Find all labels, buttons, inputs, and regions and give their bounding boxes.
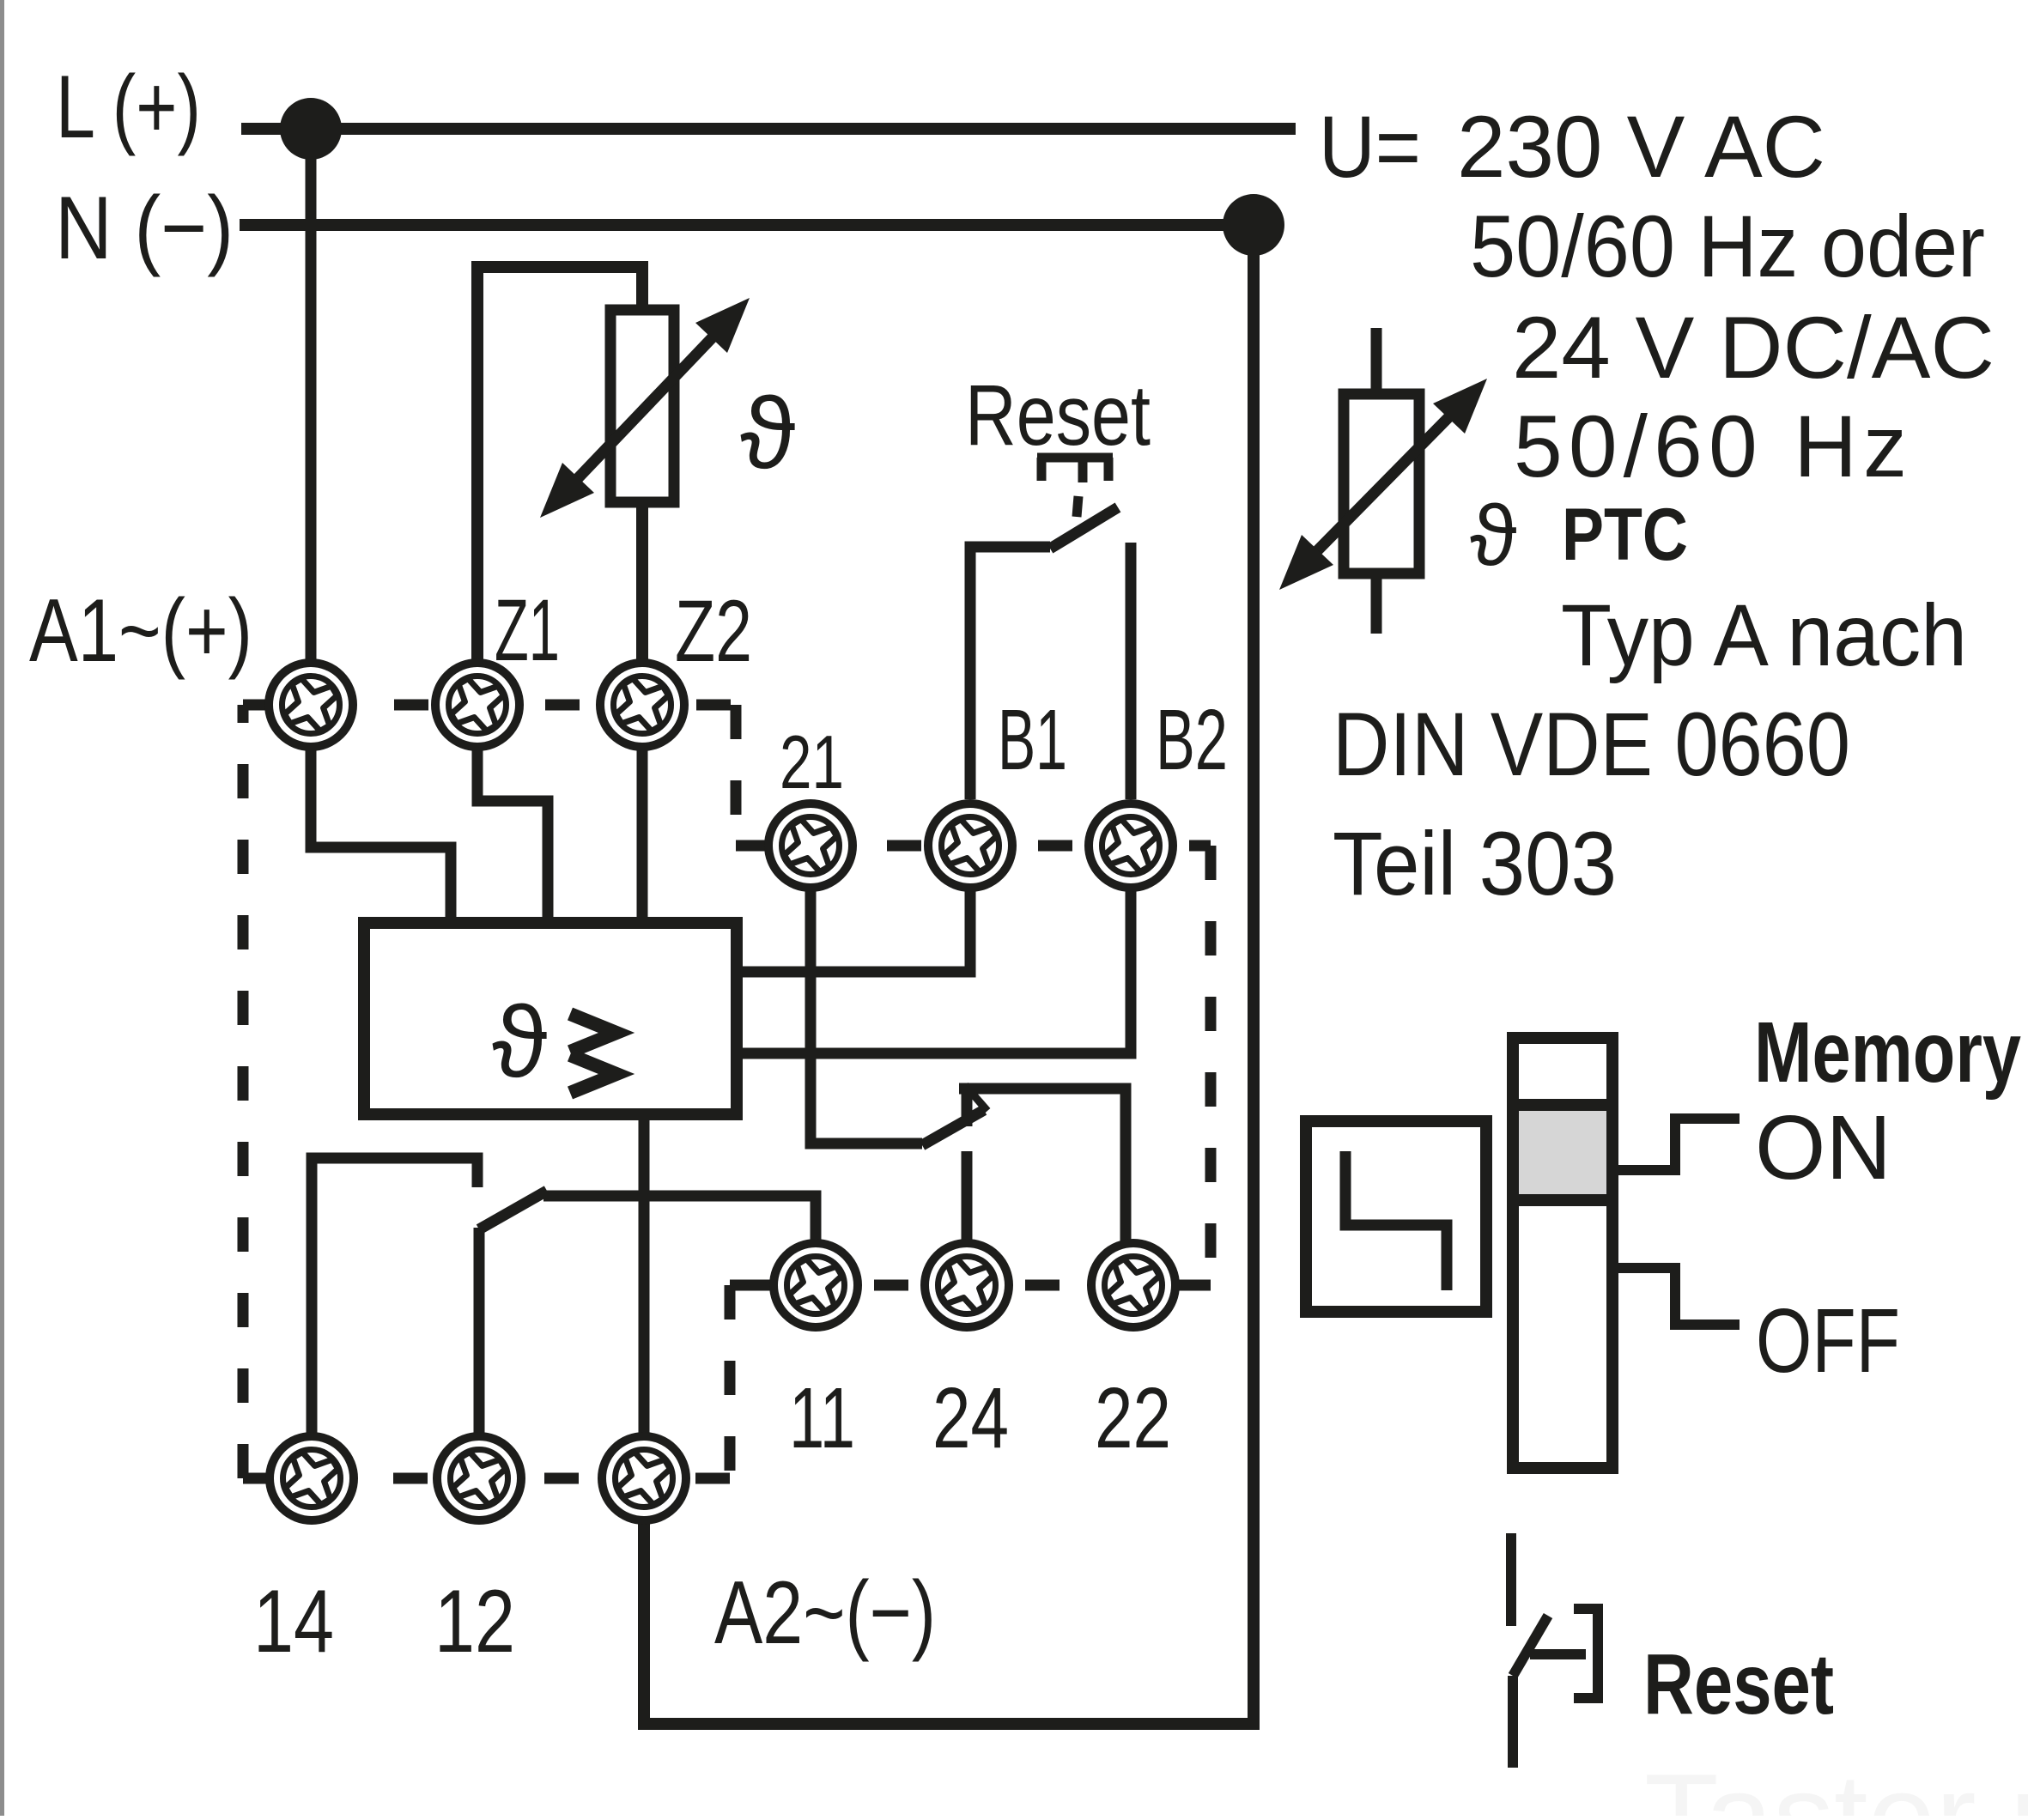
svg-text:21: 21 <box>780 719 844 804</box>
terminal A2 <box>602 1436 686 1520</box>
svg-text:Teil 303: Teil 303 <box>1333 814 1617 914</box>
svg-text:Reset: Reset <box>1643 1636 1834 1732</box>
svg-text:24 V DC/AC: 24 V DC/AC <box>1512 299 1995 397</box>
memory switch divider top <box>1513 1099 1612 1111</box>
terminal B1 <box>928 804 1012 888</box>
wire box output to B2 <box>737 846 1131 1053</box>
wire from rheostat down to Z2 <box>636 496 648 705</box>
svg-text:12: 12 <box>434 1572 515 1671</box>
svg-text:ON: ON <box>1755 1097 1891 1198</box>
reset pushbutton actuator bracket <box>1530 1604 1603 1703</box>
rheostat (set-point adjuster) body <box>610 310 674 502</box>
terminal B2 <box>1089 804 1173 888</box>
reset contact blade <box>1050 507 1118 549</box>
trip device box <box>364 923 737 1114</box>
wire to ON <box>1612 1119 1740 1170</box>
wire box output to B1 <box>737 846 970 972</box>
svg-text:50/60 Hz: 50/60 Hz <box>1514 397 1907 495</box>
wire fixed contact to terminal 22 <box>959 1089 1126 1285</box>
svg-text:ϑ: ϑ <box>1470 488 1517 584</box>
rheostat arrow <box>540 298 750 518</box>
wire bottom from A2 to right bus <box>644 1478 1260 1724</box>
terminal 21 <box>768 804 853 888</box>
page left border <box>0 0 4 1816</box>
PTC thermistor body <box>1344 394 1419 573</box>
latching function icon <box>1306 1121 1486 1312</box>
wire 14 fixed contact <box>312 1158 477 1478</box>
svg-text:230 V AC: 230 V AC <box>1457 98 1825 196</box>
svg-text:50/60 Hz oder: 50/60 Hz oder <box>1470 197 1985 295</box>
contact blade 21-24 <box>922 1110 984 1145</box>
contact tick at blade tip <box>965 1085 987 1111</box>
memory switch knob (grey) <box>1519 1110 1606 1195</box>
svg-text:24: 24 <box>932 1370 1009 1466</box>
svg-text:22: 22 <box>1095 1370 1171 1466</box>
terminal 11 <box>774 1243 858 1327</box>
terminal 12 <box>437 1436 521 1520</box>
reset pushbutton actuator <box>1037 458 1113 517</box>
wire N supply line <box>240 219 1254 231</box>
wire B2 stub up to reset contact <box>1126 543 1137 799</box>
svg-text:B1: B1 <box>998 692 1067 788</box>
reset pushbutton lead bottom <box>1508 1676 1518 1768</box>
wire from Z1 into trip box <box>477 705 548 931</box>
wire from L dot down to terminal A1 <box>306 129 317 705</box>
svg-text:L (+): L (+) <box>56 58 201 157</box>
contact blade 12-11 <box>479 1191 547 1229</box>
dashed device outline through terminal rows <box>243 705 1211 1478</box>
wire L supply line <box>241 123 1296 135</box>
wire B1 up to reset contact <box>970 547 1050 799</box>
svg-text:Z1: Z1 <box>495 581 560 679</box>
PTC thermistor lead bottom <box>1371 573 1382 634</box>
wire stub left of terminal 11 <box>742 1280 816 1291</box>
wire to OFF <box>1612 1268 1740 1325</box>
svg-text:A2~(−): A2~(−) <box>714 1563 936 1663</box>
reset pushbutton (bottom right) lead top <box>1506 1533 1516 1626</box>
svg-text:11: 11 <box>789 1370 855 1466</box>
svg-text:Typ A nach: Typ A nach <box>1561 586 1967 684</box>
junction dot on N <box>1223 194 1284 256</box>
wire from Z2 into trip box <box>637 705 648 931</box>
svg-text:PTC: PTC <box>1562 494 1688 576</box>
wire blade to terminal 11 <box>543 1196 816 1285</box>
svg-text:ϑ: ϑ <box>492 986 548 1099</box>
terminal Z2 <box>600 663 684 747</box>
terminal 22 <box>1091 1243 1175 1327</box>
svg-text:B2: B2 <box>1156 692 1228 788</box>
greater-equal chevrons in box <box>570 1014 616 1093</box>
svg-text:N (−): N (−) <box>55 179 234 278</box>
wire 21 down to contact <box>811 846 922 1144</box>
memory switch divider bottom <box>1513 1194 1612 1206</box>
PTC thermistor arrow <box>1279 379 1487 590</box>
svg-text:DIN VDE 0660: DIN VDE 0660 <box>1333 695 1850 795</box>
svg-text:Memory: Memory <box>1754 1004 2021 1101</box>
memory slide switch body <box>1513 1038 1612 1468</box>
wire loop from Z1 up over to rheostat <box>477 267 642 705</box>
svg-text:U=: U= <box>1319 98 1421 196</box>
svg-text:ϑ: ϑ <box>740 377 796 490</box>
wire 12 up to contact <box>474 1228 485 1478</box>
terminal A1 <box>269 663 353 747</box>
wire from A1 into trip box <box>311 705 451 931</box>
terminal 24 <box>925 1243 1009 1327</box>
wire box bottom to A2 <box>639 1114 650 1478</box>
reset pushbutton blade <box>1513 1616 1548 1676</box>
wire stub to terminal 24 <box>962 1151 973 1285</box>
svg-text:OFF: OFF <box>1756 1290 1900 1392</box>
svg-text:A1~(+): A1~(+) <box>29 581 252 681</box>
terminal 14 <box>270 1436 354 1520</box>
svg-text:Z2: Z2 <box>675 582 752 680</box>
svg-text:Reset: Reset <box>965 367 1151 464</box>
wire right bus from N dot down <box>1248 225 1260 1724</box>
svg-text:14: 14 <box>253 1572 334 1671</box>
junction dot on L <box>280 98 342 160</box>
PTC thermistor lead top <box>1371 328 1382 394</box>
terminal Z1 <box>435 663 519 747</box>
svg-text:Taster und: Taster und <box>1644 1749 2028 1816</box>
